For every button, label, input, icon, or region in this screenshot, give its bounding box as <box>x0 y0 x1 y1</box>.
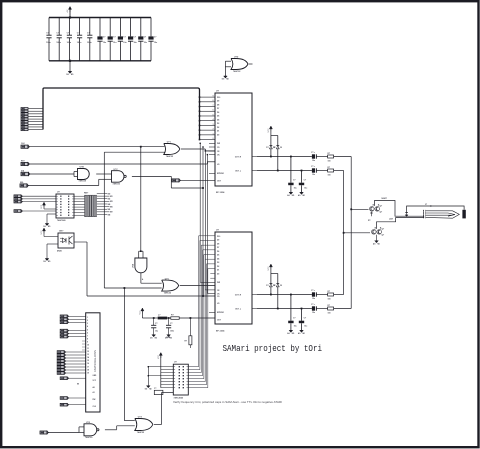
svg-text:100n: 100n <box>170 331 174 333</box>
svg-text:D9: D9 <box>217 101 219 103</box>
wire <box>28 108 43 110</box>
wire clk line <box>27 146 164 148</box>
svg-text:100n: 100n <box>56 42 61 44</box>
svg-text:OK?: OK? <box>59 231 64 233</box>
svg-text:VCC: VCC <box>268 266 270 271</box>
ground symbol opto <box>46 257 48 260</box>
VCC arrow at U5 <box>160 354 162 358</box>
svg-text:VCC: VCC <box>140 310 142 315</box>
wire out line R <box>257 156 312 158</box>
svg-text:D?: D? <box>273 285 275 287</box>
diode D1 <box>270 136 272 146</box>
diode D1 <box>270 274 272 284</box>
bus horizontal to U1 <box>43 88 200 140</box>
capacitor C8 <box>119 18 121 37</box>
svg-text:EF-1234: EF-1234 <box>216 191 225 194</box>
wire to bottom nand <box>47 432 79 434</box>
connector lower <box>14 210 21 213</box>
wire <box>28 118 43 120</box>
bus vertical <box>42 89 44 129</box>
svg-text:A0: A0 <box>93 386 95 389</box>
svg-text:74HC00: 74HC00 <box>113 182 121 185</box>
svg-text:100n: 100n <box>87 42 92 44</box>
resistor R? filter <box>171 317 179 320</box>
connector lower input <box>20 184 27 187</box>
svg-text:OUT_L: OUT_L <box>235 309 242 311</box>
svg-text:RW: RW <box>93 399 96 401</box>
svg-text:VCC: VCC <box>41 204 43 209</box>
capacitor to ground on R line <box>290 294 292 296</box>
ground symbol at U5 <box>147 385 149 387</box>
mix vertical B <box>350 157 352 309</box>
svg-text:N$6: N$6 <box>108 209 111 211</box>
mix vertical A <box>343 171 345 295</box>
capacitor C1 <box>48 18 50 36</box>
svg-text:100n: 100n <box>46 42 51 44</box>
wire R1 to mix vertical <box>334 156 352 158</box>
junction branch to bottom gate <box>124 287 126 289</box>
VCC arrow at opto <box>43 230 45 234</box>
svg-text:U?C: U?C <box>114 169 119 171</box>
wire or2 bottom input line <box>104 287 161 289</box>
svg-text:10u: 10u <box>312 312 315 314</box>
connectors into U3 <box>14 195 21 198</box>
capacitor C2 <box>58 18 60 36</box>
resistor L line series <box>328 307 334 310</box>
svg-text:A1: A1 <box>93 391 95 394</box>
svg-text:15: 15 <box>87 360 89 362</box>
svg-text:RN?: RN? <box>84 193 89 195</box>
svg-text:5: 5 <box>87 329 88 331</box>
wire <box>28 115 43 117</box>
svg-text:100: 100 <box>328 161 331 163</box>
svg-text:D10: D10 <box>217 236 220 238</box>
junction tap to amp R <box>350 208 352 210</box>
bundle U5 to U2 data pins <box>188 366 198 368</box>
svg-text:N$2: N$2 <box>108 199 111 201</box>
emitter resistor Q1 <box>371 212 373 217</box>
svg-text:14: 14 <box>87 356 89 359</box>
svg-text:17: 17 <box>87 366 89 368</box>
transistor pair Q1 <box>370 207 375 212</box>
wire bottom nand out jog <box>105 429 117 431</box>
capacitor C7 <box>109 18 111 37</box>
ferrite bead L? <box>158 317 168 320</box>
svg-text:D2: D2 <box>217 266 219 268</box>
or-gate U?1 <box>164 144 180 155</box>
capacitor C9 <box>130 18 132 37</box>
junction at vertical bus <box>202 187 204 189</box>
svg-text:10u: 10u <box>294 326 297 328</box>
svg-text:D8: D8 <box>217 104 219 106</box>
audio jack J? <box>423 210 425 212</box>
connector group 3 (8x) <box>57 351 64 354</box>
amp path L channel <box>377 218 425 229</box>
svg-text:10u: 10u <box>312 298 315 300</box>
svg-text:U?B: U?B <box>80 167 85 169</box>
svg-text:19: 19 <box>87 372 89 374</box>
svg-text:D5: D5 <box>217 116 219 118</box>
connector D/A input <box>21 172 28 175</box>
jack top loop wire <box>407 206 465 212</box>
and-gate U?B <box>78 169 90 180</box>
svg-text:8: 8 <box>87 339 88 341</box>
bus fan-out to U1 pins <box>200 96 216 98</box>
series electrolytic cap R line <box>312 292 315 296</box>
series electrolytic cap L line <box>312 306 315 310</box>
wire L2 to mix vertical <box>334 308 352 310</box>
connector group 1 <box>60 315 67 318</box>
capacitor C3 <box>68 18 70 36</box>
wire <box>28 110 43 112</box>
diode D2 <box>277 274 279 284</box>
wire from bottom or gate into U5 <box>161 393 163 425</box>
VCC arrow above diodes <box>270 266 272 270</box>
diode D2 <box>277 136 279 146</box>
ground symbol below Q2 <box>376 240 378 242</box>
wire R2 to mix vertical <box>334 294 344 296</box>
svg-text:U?A: U?A <box>132 263 135 268</box>
svg-text:D8: D8 <box>217 243 219 245</box>
svg-text:74HC32: 74HC32 <box>233 70 241 73</box>
wire L1 to mix vertical <box>334 170 344 172</box>
svg-text:D6: D6 <box>217 112 219 114</box>
transistor pair Q2 <box>372 230 377 235</box>
svg-text:EPROM: EPROM <box>217 173 224 175</box>
wire diode tops <box>271 135 278 137</box>
svg-text:D10: D10 <box>217 97 220 99</box>
wire <box>28 129 43 131</box>
cap filter 2 <box>168 317 170 319</box>
wire and lower input from net <box>104 151 165 153</box>
svg-text:10u: 10u <box>304 326 307 328</box>
svg-text:10u: 10u <box>294 188 297 190</box>
wire gate output down <box>140 273 142 283</box>
stub labels on block <box>82 340 86 342</box>
svg-text:10u: 10u <box>312 160 315 162</box>
connector group 2 <box>60 329 67 332</box>
capacitor C5 <box>89 18 91 36</box>
series electrolytic cap L line <box>312 168 315 172</box>
capacitor C11 <box>150 18 152 37</box>
ground symbol at gate U?D <box>224 75 226 77</box>
connector single <box>60 377 67 380</box>
svg-text:N$1: N$1 <box>110 196 113 198</box>
wire opto output down to U2 <box>74 241 87 243</box>
power rail VCC bus <box>49 17 151 19</box>
capacitor to ground on L line <box>301 308 303 310</box>
wire or output to U1 <box>181 148 205 150</box>
svg-text:VCC: VCC <box>41 230 43 235</box>
oscillator DIP U5 <box>173 364 188 395</box>
svg-text:11: 11 <box>87 348 89 350</box>
VCC arrow supply <box>69 8 71 12</box>
wire Q2 emitter down <box>376 235 378 241</box>
svg-text:74HC00: 74HC00 <box>85 436 93 439</box>
VCC arrow at U3 <box>43 204 45 208</box>
wire U3 pin to ground <box>47 213 56 215</box>
svg-text:100n: 100n <box>67 42 72 44</box>
svg-text:13: 13 <box>87 354 89 356</box>
extra data pin wires U2 <box>210 277 215 279</box>
pullup resistor at U2 pin <box>190 317 192 319</box>
cap filter 1 <box>153 317 155 319</box>
svg-text:D7: D7 <box>217 247 219 249</box>
connector at U1 OUT <box>172 179 179 182</box>
connector block CN1 <box>86 313 100 412</box>
svg-text:10u: 10u <box>155 331 158 333</box>
or-gate U?D unused tied to ground <box>231 59 248 70</box>
wire <box>28 121 43 123</box>
control bus verticals U1 to U2 <box>199 143 201 282</box>
svg-text:10: 10 <box>87 345 89 347</box>
svg-text:74HC240: 74HC240 <box>57 219 66 222</box>
connector CLK input <box>21 145 28 148</box>
svg-text:EF-1234: EF-1234 <box>216 329 225 332</box>
ground symbol U3 <box>46 222 48 225</box>
wire opto lower to ground <box>47 243 58 245</box>
U2 right pin OUT_R stub <box>252 294 257 296</box>
svg-text:N$: N$ <box>77 384 79 386</box>
svg-text:D2: D2 <box>217 127 219 129</box>
jack sleeve <box>462 210 465 219</box>
svg-text:D0: D0 <box>217 273 219 275</box>
IC U1 EF-1234 rectangle <box>215 93 252 186</box>
vertical wire into down gate <box>140 147 142 252</box>
svg-text:D?: D? <box>266 147 268 149</box>
or-gate bottom U?D2 <box>135 419 153 431</box>
U2 right pin OUT_L stub <box>252 308 257 310</box>
resistor R line series <box>328 293 334 296</box>
svg-text:D3: D3 <box>217 123 219 125</box>
svg-text:D1: D1 <box>217 131 219 133</box>
svg-text:OUT_R: OUT_R <box>235 157 242 159</box>
svg-text:VCC: VCC <box>158 354 160 359</box>
svg-text:N$5: N$5 <box>110 206 113 208</box>
vertical wire to bottom or gate <box>123 288 125 421</box>
svg-text:74HC32: 74HC32 <box>137 431 145 434</box>
svg-text:3: 3 <box>87 323 88 325</box>
connector stack J1 data inputs <box>21 108 28 110</box>
svg-text:2: 2 <box>87 320 88 322</box>
svg-text:D6: D6 <box>217 251 219 253</box>
wires U3 to RN <box>74 195 85 197</box>
svg-text:CARTRIDGE-CONN: CARTRIDGE-CONN <box>94 350 97 372</box>
svg-text:GND: GND <box>166 337 171 339</box>
svg-text:D7: D7 <box>217 108 219 110</box>
svg-text:EPROM: EPROM <box>217 312 224 314</box>
svg-text:SAMari project by tOri: SAMari project by tOri <box>223 343 323 354</box>
svg-text:D?: D? <box>273 147 275 149</box>
vertical net wire <box>103 152 105 288</box>
svg-text:D3: D3 <box>217 262 219 264</box>
nand-gate bottom U?C <box>84 424 97 436</box>
left bus wires into U5 <box>160 356 162 388</box>
resistor L line series <box>328 169 334 172</box>
svg-text:6: 6 <box>87 332 88 334</box>
svg-text:U?D: U?D <box>234 57 239 59</box>
left branch to ground <box>148 366 161 368</box>
wire or2 output to U2 <box>180 285 215 287</box>
svg-text:D0: D0 <box>217 134 219 136</box>
junction of nand net with opto line <box>202 295 204 297</box>
input tie bracket <box>139 250 143 252</box>
DIP IC U3 with pins <box>56 194 74 218</box>
svg-text:74HC08: 74HC08 <box>79 180 87 183</box>
wire top input from junction vertical <box>124 420 134 422</box>
svg-text:12: 12 <box>87 351 89 353</box>
wire nand output jog to bus <box>132 175 171 177</box>
wire out line L <box>257 170 312 172</box>
connector bottom input <box>40 431 47 434</box>
svg-text:D4: D4 <box>217 118 219 121</box>
svg-text:VCC: VCC <box>268 128 270 133</box>
junction tap to amp L <box>343 232 345 234</box>
opto LED symbol <box>63 238 67 243</box>
svg-text:N$3: N$3 <box>110 201 113 203</box>
svg-text:D5: D5 <box>217 255 219 257</box>
svg-text:1: 1 <box>87 317 88 319</box>
nand-gate U?C <box>112 171 125 183</box>
svg-text:D4: D4 <box>217 257 219 260</box>
crystal box on wire <box>154 390 163 394</box>
svg-text:Verify frequency trim; polariz: Verify frequency trim; polarized caps in… <box>173 400 282 404</box>
junction on clk line <box>140 146 142 148</box>
opto transistor symbol <box>68 237 70 245</box>
ground rail bus <box>49 60 151 62</box>
wire or out up to U5 <box>154 424 162 426</box>
series electrolytic cap R line <box>312 154 315 158</box>
VCC arrow above diodes <box>270 128 272 132</box>
connector single 2 <box>60 397 67 400</box>
svg-text:L&R: L&R <box>389 219 394 221</box>
connector line2 <box>21 162 28 165</box>
resistor network RN1 <box>85 195 86 217</box>
VCC arrow filter <box>141 310 143 314</box>
svg-text:74HC32: 74HC32 <box>164 292 172 295</box>
RN output stub wires with labels <box>97 193 107 195</box>
svg-text:N$7: N$7 <box>110 212 113 214</box>
U1 right pin OUT_R stub <box>252 156 257 158</box>
svg-text:10u: 10u <box>304 188 307 190</box>
svg-text:D?: D? <box>266 285 268 287</box>
capacitor to ground on R line <box>290 156 292 158</box>
ground symbol below cap bank <box>69 61 71 72</box>
svg-text:N$8: N$8 <box>108 214 111 216</box>
svg-text:D9: D9 <box>217 240 219 242</box>
wire out line L <box>257 308 312 310</box>
U1 right pin OUT_L stub <box>252 170 257 172</box>
wire <box>28 113 43 115</box>
wire <box>28 123 43 125</box>
svg-text:100: 100 <box>328 299 331 301</box>
svg-text:100: 100 <box>328 313 331 315</box>
wire to gate U?B <box>28 173 74 175</box>
amp box outline R channel <box>375 201 425 217</box>
tiny series part on loop <box>405 211 408 213</box>
svg-text:74HC32: 74HC32 <box>166 155 174 158</box>
capacitor to ground on L line <box>301 170 303 172</box>
wire out line R <box>257 294 312 296</box>
svg-text:N$0: N$0 <box>108 193 111 195</box>
svg-text:7: 7 <box>87 335 88 337</box>
svg-text:OUT_R: OUT_R <box>235 295 242 297</box>
svg-text:100n: 100n <box>77 42 82 44</box>
opto-coupler U4 box <box>58 233 74 248</box>
wire line2 to U1 <box>27 163 207 165</box>
svg-text:D1: D1 <box>217 270 219 272</box>
or-gate U?B 2 <box>162 280 179 291</box>
svg-text:4: 4 <box>87 325 88 328</box>
svg-text:74HC4060: 74HC4060 <box>174 397 184 400</box>
capacitor C4 <box>79 18 81 36</box>
capacitor C10 <box>140 18 142 37</box>
wire step to nand input <box>26 185 98 187</box>
IC U2 EF-1234 rectangle <box>215 232 252 324</box>
svg-text:NJM?: NJM? <box>382 198 388 200</box>
svg-text:18: 18 <box>87 369 89 371</box>
svg-text:9: 9 <box>87 342 88 344</box>
resistor R line series <box>328 155 334 158</box>
svg-text:100: 100 <box>328 175 331 177</box>
svg-text:16: 16 <box>87 363 89 365</box>
connector single 3 <box>60 403 67 406</box>
U1 control pin stubs <box>209 142 215 144</box>
wire <box>28 126 43 128</box>
svg-text:10u: 10u <box>312 174 315 176</box>
and-gate U?A vertical pointing down <box>135 258 147 273</box>
capacitor C6 <box>99 18 101 37</box>
wire diode tops <box>271 273 278 275</box>
svg-text:OUT_L: OUT_L <box>235 171 242 173</box>
